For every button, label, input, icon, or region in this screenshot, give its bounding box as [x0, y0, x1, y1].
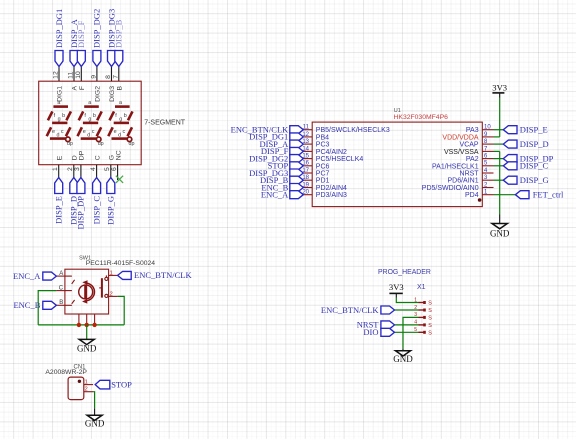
- svg-text:GND: GND: [393, 354, 413, 364]
- SW1 pin C stub: [56, 286, 65, 292]
- svg-text:DISP_B: DISP_B: [114, 19, 124, 48]
- svg-text:PA2: PA2: [466, 156, 479, 163]
- SW1 pin A stub: [56, 271, 65, 277]
- net flag DISP_DP (U1 pin 6): [503, 153, 553, 163]
- svg-text:D: D: [72, 155, 79, 160]
- svg-text:dp: dp: [67, 141, 73, 147]
- svg-text:NRST: NRST: [460, 171, 480, 178]
- wire U1 pin8 VCAP to DISP_D: [494, 143, 504, 145]
- svg-text:a: a: [57, 100, 60, 106]
- 7-seg pin 10 top wire: [75, 67, 86, 91]
- SW1 pin 1 stub: [109, 270, 118, 276]
- SW1 bottom pin stubs to ground rail: [79, 314, 95, 325]
- svg-text:8: 8: [105, 75, 112, 79]
- net flag DIO (X1 pin 5): [363, 327, 394, 337]
- net flag ENC_A (U1 pin 20): [261, 190, 303, 200]
- svg-text:c: c: [123, 129, 126, 135]
- svg-text:PC6: PC6: [316, 163, 330, 170]
- SW1 pin B stub: [56, 300, 65, 306]
- svg-text:e: e: [114, 129, 117, 135]
- svg-text:3V3: 3V3: [389, 282, 404, 292]
- svg-text:F: F: [79, 86, 86, 90]
- svg-text:6: 6: [111, 167, 118, 171]
- net flag DISP_G (bottom): [106, 178, 116, 225]
- junction SW1 rail pin left: [77, 323, 81, 327]
- svg-text:PD3/AIN3: PD3/AIN3: [316, 192, 347, 199]
- SW1 push button contacts: [99, 275, 108, 297]
- 7-seg pin 12 top wire: [53, 67, 64, 102]
- net flag DISP_DG1: [54, 9, 64, 67]
- 7-seg pin 3 bottom wire: [74, 150, 86, 177]
- X1 pin 3 stub: [414, 312, 432, 321]
- svg-text:1: 1: [52, 167, 59, 171]
- svg-text:DP: DP: [79, 150, 86, 160]
- component CN1 A2008WR-2P connector body: [45, 364, 87, 399]
- wire U1 pin9 VDD to 3V3 rail: [494, 136, 500, 138]
- SW1 wiper contact C: [65, 290, 72, 292]
- svg-text:DISP_G: DISP_G: [520, 175, 549, 185]
- svg-text:STOP: STOP: [111, 380, 132, 390]
- svg-text:ENC_BTN/CLK: ENC_BTN/CLK: [134, 270, 192, 280]
- svg-text:FET_ctrl: FET_ctrl: [533, 190, 564, 200]
- svg-text:DISP_DG2: DISP_DG2: [92, 9, 102, 48]
- svg-text:DISP_D: DISP_D: [520, 139, 549, 149]
- svg-text:4: 4: [90, 167, 97, 171]
- component DS1 7-SEGMENT display body: [39, 81, 186, 165]
- X1 pin 1 stub: [414, 297, 432, 306]
- ground symbol GND below X1: [393, 349, 413, 364]
- svg-text:ENC_A: ENC_A: [13, 271, 41, 281]
- svg-text:PC7: PC7: [316, 171, 330, 178]
- svg-text:11: 11: [68, 72, 75, 79]
- net flag DISP_D (U1 pin 8): [503, 139, 548, 149]
- net flag DISP_DG1 (U1 pin 12): [249, 132, 303, 142]
- wire U1 pin5 PA1 to DISP_C: [494, 165, 504, 167]
- svg-text:1: 1: [414, 297, 417, 303]
- SW1 wiper contact A: [65, 276, 75, 284]
- net flag DISP_C (bottom): [91, 178, 101, 225]
- svg-text:DISP_C: DISP_C: [520, 161, 549, 171]
- U1 right pin stubs 10-1: [482, 130, 493, 195]
- net flag FET_ctrl (U1 pin 1): [515, 190, 564, 200]
- U1 left pin names: [316, 127, 390, 199]
- net flag DISP_A: [69, 18, 79, 66]
- svg-text:PB5/SWCLK/HSECLK3: PB5/SWCLK/HSECLK3: [316, 127, 390, 134]
- net flag DISP_E (U1 pin 10): [503, 125, 547, 135]
- wire X1 pin 3 to ground: [403, 317, 419, 349]
- svg-text:PA3: PA3: [466, 127, 479, 134]
- svg-text:GND: GND: [85, 418, 105, 428]
- net flag DISP_DG3: [106, 9, 116, 67]
- svg-text:2: 2: [85, 387, 88, 393]
- svg-text:ENC_B: ENC_B: [13, 300, 40, 310]
- wire DIO to X1 pin 5: [395, 331, 419, 333]
- U1 right pin numbers: [484, 125, 491, 196]
- svg-text:3: 3: [414, 312, 417, 318]
- svg-text:PC3: PC3: [316, 142, 330, 149]
- svg-text:b: b: [93, 113, 96, 119]
- svg-text:4: 4: [414, 320, 417, 326]
- net flag DISP_B (U1 pin 18): [260, 175, 303, 185]
- svg-text:f: f: [115, 113, 117, 119]
- svg-text:2: 2: [110, 291, 113, 297]
- 7-seg pin 7 top wire: [113, 67, 124, 91]
- svg-text:ENC_A: ENC_A: [261, 190, 289, 200]
- net flag ENC_A (SW1 pin A): [13, 271, 56, 281]
- wire U1 pin10 PA3 to DISP_E: [494, 129, 504, 131]
- svg-text:VDD/VDDA: VDD/VDDA: [442, 134, 479, 141]
- svg-text:g: g: [119, 117, 122, 123]
- CN1 pin 2 stub: [84, 387, 93, 393]
- svg-text:2: 2: [414, 305, 417, 311]
- net flag DISP_E (bottom): [54, 178, 64, 224]
- wire CN1 pin 2 to ground: [93, 392, 95, 409]
- wire SW1 pin C to ground loop (left): [38, 291, 56, 325]
- power flag 3V3 above U1: [492, 83, 507, 98]
- svg-text:1: 1: [85, 379, 88, 385]
- net flag DISP_F (U1 pin 14): [261, 146, 303, 156]
- wire 3V3 to X1 pin 1: [396, 298, 418, 303]
- svg-text:c: c: [61, 129, 64, 135]
- svg-text:e: e: [52, 129, 55, 135]
- net flag ENC_BTN/CLK (SW1 pin 1): [118, 270, 193, 280]
- svg-text:f: f: [54, 113, 56, 119]
- svg-text:HK32F030MF4P6: HK32F030MF4P6: [394, 114, 449, 121]
- net flag DISP_G (U1 pin 3): [503, 175, 548, 185]
- svg-text:A2008WR-2P: A2008WR-2P: [45, 369, 87, 376]
- svg-text:E: E: [56, 155, 63, 160]
- svg-text:GND: GND: [490, 229, 510, 239]
- svg-text:A: A: [59, 271, 63, 277]
- component X1 PROG_HEADER body: [378, 269, 431, 291]
- net flag DISP_C (U1 pin 5): [503, 161, 548, 171]
- svg-text:3: 3: [74, 167, 81, 171]
- svg-text:C: C: [94, 155, 101, 160]
- svg-text:DISP_DG1: DISP_DG1: [54, 9, 64, 48]
- svg-text:PROG_HEADER: PROG_HEADER: [378, 269, 431, 276]
- svg-text:DISP_C: DISP_C: [91, 196, 101, 225]
- junction SW1 rail pin middle: [85, 323, 89, 327]
- wire U1 pin6 PA2 to DISP_DP: [494, 158, 504, 160]
- svg-text:DISP_E: DISP_E: [520, 125, 548, 135]
- svg-text:PC5/HSECLK4: PC5/HSECLK4: [316, 156, 364, 163]
- U1 right pin names: [422, 127, 480, 199]
- svg-text:PEC11R-4015F-S0024: PEC11R-4015F-S0024: [86, 260, 156, 267]
- junction SW1 rail pin right: [92, 323, 96, 327]
- svg-text:DISP_DP: DISP_DP: [76, 196, 86, 230]
- svg-text:b: b: [124, 113, 127, 119]
- svg-text:dp: dp: [98, 141, 104, 147]
- CN1 pin 1 stub: [84, 379, 93, 385]
- net flag STOP (U1 pin 16): [268, 161, 304, 171]
- svg-text:VCAP: VCAP: [460, 142, 479, 149]
- net flag DISP_DG2: [92, 9, 102, 67]
- 7-seg pin 9 top wire: [91, 67, 102, 102]
- 7-seg digit DIG1 glyph: [47, 107, 71, 142]
- wire VSS to GND vertical: [499, 151, 501, 214]
- net flag DISP_DP (bottom): [76, 178, 86, 230]
- svg-text:PA1/HSECLK1: PA1/HSECLK1: [432, 163, 479, 170]
- svg-text:VSS/VSSA: VSS/VSSA: [444, 149, 479, 156]
- svg-text:A: A: [72, 86, 79, 91]
- net flag ENC_B (SW1 pin B): [13, 300, 56, 310]
- svg-text:PD2/AIN4: PD2/AIN4: [316, 185, 347, 192]
- wire ENC_BTN/CLK to X1 pin 2: [395, 309, 419, 311]
- component U1 HK32F030MF4P6 body: [312, 108, 482, 207]
- svg-text:DISP_F: DISP_F: [76, 20, 86, 48]
- svg-text:5: 5: [414, 327, 417, 333]
- svg-text:C: C: [59, 286, 64, 292]
- 7-seg pin 5 bottom wire: [104, 155, 116, 178]
- svg-text:a: a: [88, 100, 91, 106]
- 7-seg pin 11 top wire: [68, 67, 79, 91]
- svg-text:ENC_BTN/CLK: ENC_BTN/CLK: [321, 305, 379, 315]
- U1 left pin stubs 11-20: [303, 130, 312, 195]
- SW1 encoder dial symbol: [79, 283, 95, 301]
- svg-text:X1: X1: [417, 284, 426, 291]
- svg-text:S: S: [428, 316, 432, 322]
- svg-text:f: f: [84, 113, 86, 119]
- 7-seg pin 2 bottom wire: [67, 155, 79, 177]
- wire U1 pin3 PD6 to DISP_G: [494, 179, 504, 181]
- svg-text:B: B: [117, 86, 124, 91]
- 7-seg pin 8 top wire: [105, 67, 116, 102]
- svg-text:g: g: [88, 117, 91, 123]
- svg-text:7-SEGMENT: 7-SEGMENT: [144, 120, 186, 127]
- ground symbol GND below U1: [490, 215, 510, 239]
- svg-text:2: 2: [67, 167, 74, 171]
- svg-text:7: 7: [113, 75, 120, 79]
- component SW1 PEC11R-4015F-S0024 rotary encoder body: [65, 255, 155, 314]
- net flag DISP_DG3 (U1 pin 17): [249, 168, 303, 178]
- svg-text:1: 1: [110, 270, 113, 276]
- net flag ENC_BTN/CLK (X1 pin 2): [321, 305, 395, 315]
- SW1 dial rotation arrowheads: [82, 280, 87, 285]
- svg-text:S: S: [428, 331, 432, 337]
- net flag DISP_DG2 (U1 pin 15): [249, 153, 303, 163]
- wire SW1 rail to ground: [86, 325, 88, 340]
- wire SW1 pin 2 to ground loop (right): [118, 296, 125, 325]
- svg-text:S: S: [428, 308, 432, 314]
- net flag DISP_F: [76, 20, 86, 66]
- SW1 wiper contact B: [65, 300, 75, 305]
- ground symbol GND below SW1: [77, 339, 97, 353]
- svg-text:NC: NC: [115, 150, 122, 160]
- X1 pin 5 stub: [414, 327, 432, 337]
- svg-text:d: d: [87, 133, 90, 139]
- svg-text:PC4/AIN2: PC4/AIN2: [316, 149, 347, 156]
- 7-seg pin 6 bottom wire with no-connect X: [111, 150, 123, 183]
- 7-seg digit DIG3 glyph: [108, 107, 132, 142]
- 7-seg digit DIG2 glyph: [78, 107, 102, 142]
- svg-text:DISP_G: DISP_G: [106, 196, 116, 225]
- svg-text:PB4: PB4: [316, 134, 329, 141]
- 7-seg pin 4 bottom wire: [90, 155, 102, 177]
- svg-text:GND: GND: [77, 343, 97, 353]
- 7-seg pin 1 bottom wire: [52, 155, 64, 177]
- svg-text:PD1: PD1: [316, 178, 330, 185]
- svg-text:b: b: [62, 113, 65, 119]
- power flag 3V3 at PROG_HEADER: [389, 282, 404, 297]
- svg-text:e: e: [83, 129, 86, 135]
- CN1 pin-1 marker dot: [78, 380, 81, 383]
- net flag STOP (CN1 pin 1): [95, 380, 132, 390]
- svg-text:12: 12: [53, 71, 60, 79]
- svg-text:PD4: PD4: [465, 192, 479, 199]
- svg-text:DIG3: DIG3: [109, 86, 116, 102]
- net flag DISP_D (bottom): [69, 178, 79, 225]
- svg-text:10: 10: [484, 125, 491, 131]
- SW1 pin 2 stub: [109, 291, 118, 297]
- net flag DISP_B: [114, 19, 124, 66]
- svg-text:DISP_E: DISP_E: [54, 196, 64, 224]
- svg-text:DIO: DIO: [363, 327, 378, 337]
- svg-text:PD5/SWDIO/AIN0: PD5/SWDIO/AIN0: [422, 185, 479, 192]
- net flag ENC_B (U1 pin 19): [261, 182, 303, 192]
- svg-text:S: S: [428, 301, 432, 307]
- wire 3V3 vertical rail to GND: [499, 98, 501, 137]
- net flag NRST (X1 pin 4): [357, 320, 395, 330]
- svg-text:c: c: [92, 129, 95, 135]
- U1 left pin numbers: [302, 125, 309, 196]
- svg-text:3V3: 3V3: [492, 83, 507, 93]
- X1 pin 4 stub: [414, 320, 432, 329]
- X1 pin 2 stub: [414, 305, 432, 314]
- net flag DISP_A (U1 pin 13): [259, 139, 303, 149]
- ground symbol GND below CN1: [85, 408, 105, 428]
- svg-text:a: a: [119, 100, 122, 106]
- wire NRST to X1 pin 4: [395, 324, 419, 326]
- U1 pin-1 marker dot: [478, 198, 482, 202]
- wire U1 pin1 PD4 to FET_ctrl: [494, 194, 516, 196]
- wire SW1 ground rail (bottom): [38, 324, 124, 326]
- svg-text:dp: dp: [129, 141, 135, 147]
- svg-text:10: 10: [75, 71, 82, 79]
- svg-text:PD6/AIN1: PD6/AIN1: [447, 178, 478, 185]
- wire U1 pin7 VSS to GND rail: [494, 150, 500, 152]
- svg-text:g: g: [58, 117, 61, 123]
- svg-text:9: 9: [91, 75, 98, 79]
- net flag ENC_BTN/CLK (U1 pin 11): [231, 125, 304, 135]
- svg-text:DIG2: DIG2: [95, 86, 102, 102]
- svg-text:d: d: [118, 133, 121, 139]
- svg-text:d: d: [57, 133, 60, 139]
- svg-text:B: B: [59, 300, 63, 306]
- svg-text:S: S: [428, 323, 432, 329]
